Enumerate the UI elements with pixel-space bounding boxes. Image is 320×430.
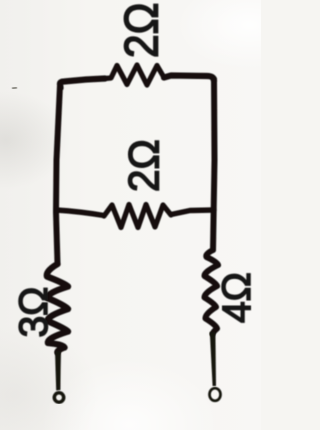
wire left vertical <box>56 85 60 264</box>
wire left bottom tapered lead <box>55 351 61 391</box>
resistor left 3 ohm wavy zigzag <box>47 264 68 353</box>
resistor right 4 ohm wavy zigzag <box>204 250 218 334</box>
svg-text:4Ω: 4Ω <box>215 272 259 323</box>
wire top horizontal left segment <box>60 79 105 89</box>
terminal left circle <box>54 393 63 402</box>
svg-text:3Ω: 3Ω <box>12 287 56 338</box>
wire top horizontal right segment <box>164 76 214 82</box>
svg-text:2Ω: 2Ω <box>119 139 167 192</box>
wire right vertical upper <box>213 79 215 250</box>
resistor middle 2 ohm zigzag <box>104 205 171 228</box>
terminal right circle <box>210 388 221 401</box>
wire middle horizontal left lead <box>56 210 104 216</box>
svg-text:2Ω: 2Ω <box>114 3 168 58</box>
stray pen mark <box>12 88 17 89</box>
resistor top 2 ohm zigzag <box>105 65 164 85</box>
wire right bottom tapered lead <box>210 332 216 386</box>
wire middle horizontal right lead <box>171 210 214 215</box>
